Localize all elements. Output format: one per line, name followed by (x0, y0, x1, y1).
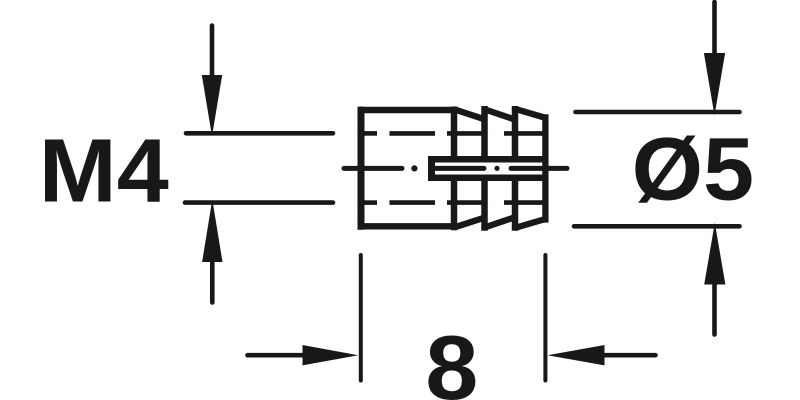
dimension 8 arrow right shaft (604, 353, 656, 358)
screwdriver slot bottom line (428, 175, 549, 182)
hidden thread line top (dashed) (365, 131, 544, 136)
insert body top edge (358, 107, 458, 113)
dimension 8 arrow left head (303, 345, 359, 365)
fin 3 vertical bottom (512, 180, 519, 231)
fin 2 vertical bottom (481, 180, 488, 231)
fin tooth diagonal bottom 1 (454, 218, 485, 228)
M4 arrow top shaft (210, 26, 215, 77)
fin 3 vertical top (512, 106, 519, 157)
Ø5 dimension line top (576, 110, 740, 115)
Ø5 arrow bottom head (704, 223, 725, 285)
Ø5 arrow bottom shaft (712, 284, 717, 335)
fin tooth diagonal top 3 (515, 109, 545, 118)
M4 arrow top head (202, 75, 222, 136)
M4 dimension line top (186, 131, 333, 136)
insert body left edge (358, 107, 365, 230)
centerline dot right (494, 166, 499, 171)
M4 dimension line bottom (185, 200, 333, 205)
screwdriver slot left cap (428, 156, 435, 181)
extension line left for dimension 8 (359, 255, 363, 381)
centerline dash right (511, 166, 567, 171)
centerline dash left (344, 166, 402, 171)
Ø5 arrow top head (704, 53, 725, 116)
centerline dash middle (through slot) (431, 166, 485, 171)
right end cap of sleeve (542, 114, 548, 222)
hidden thread line bottom (dashed) (365, 200, 544, 205)
fin tooth diagonal top 2 (485, 109, 516, 119)
insert body bottom edge (358, 223, 458, 229)
centerline dot left (411, 165, 417, 171)
M4 arrow bottom shaft (210, 261, 215, 303)
screwdriver slot top line (428, 156, 549, 163)
Ø5 dimension line bottom (574, 224, 740, 229)
fin 2 vertical top (481, 106, 488, 157)
fin tooth diagonal top 1 (454, 109, 485, 119)
Ø5 arrow top shaft (712, 2, 717, 54)
dimension 8 arrow right head (548, 345, 605, 365)
svg-text:8: 8 (425, 318, 478, 400)
fin 1 vertical top (451, 107, 458, 158)
fin tooth diagonal bottom 2 (485, 217, 516, 227)
fin 1 vertical bottom (451, 180, 458, 230)
M4 arrow bottom head (202, 200, 222, 263)
dimension 8 arrow left shaft (248, 353, 304, 358)
fin tooth diagonal bottom 3 (515, 219, 545, 228)
extension line right for dimension 8 (543, 255, 547, 381)
svg-text:Ø5: Ø5 (632, 119, 755, 219)
svg-text:M4: M4 (39, 121, 169, 221)
